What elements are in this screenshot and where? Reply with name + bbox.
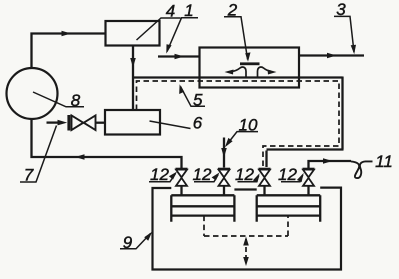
leader 6 bbox=[150, 121, 191, 129]
flow arrow right on line 1 bbox=[175, 54, 185, 60]
dashed drain manifold bbox=[204, 216, 288, 236]
valve 12 #2 bbox=[218, 169, 230, 196]
svg-text:5: 5 bbox=[193, 90, 203, 109]
wire: valve to unit 6 bbox=[96, 122, 106, 124]
svg-text:11: 11 bbox=[375, 152, 393, 171]
valve flange bar bbox=[67, 115, 70, 131]
svg-text:12: 12 bbox=[150, 165, 169, 184]
flow arrow down bbox=[130, 58, 136, 68]
svg-text:9: 9 bbox=[123, 233, 133, 252]
dashed drop arrow line bbox=[245, 239, 247, 263]
bowtie valve (pump inlet) bbox=[72, 116, 84, 131]
leader 12 #3 bbox=[238, 176, 259, 182]
flow arrow down on wire 10 bbox=[221, 148, 227, 158]
svg-text:4: 4 bbox=[166, 2, 175, 21]
regulator left air curve bbox=[233, 67, 247, 77]
wire: pump top to unit 4 bbox=[32, 34, 106, 69]
hose pigtail 11 bbox=[351, 161, 373, 178]
leader 2 bbox=[224, 17, 248, 60]
leader 7 bbox=[20, 126, 57, 183]
leader 3 bbox=[334, 16, 354, 52]
valve 12 #1 bbox=[176, 169, 188, 196]
svg-text:6: 6 bbox=[193, 113, 203, 132]
svg-text:10: 10 bbox=[239, 115, 258, 134]
unit U4 box bbox=[106, 21, 160, 46]
svg-text:12: 12 bbox=[193, 165, 212, 184]
wire 7: pump bottom suction line bbox=[32, 119, 182, 169]
wire 10: wash inlet to valve 2 bbox=[223, 138, 225, 168]
leader 12 #1 bbox=[149, 174, 176, 182]
flow arrow left on wire 7 bbox=[75, 154, 85, 160]
wire: unit 4 down to main line bbox=[132, 46, 134, 78]
svg-text:3: 3 bbox=[336, 0, 346, 19]
leader lines bbox=[20, 16, 356, 248]
wire: inlet line 1 into unit 2 bbox=[158, 55, 199, 57]
valve 12 #4 bbox=[303, 169, 315, 196]
leader 9 bbox=[120, 234, 151, 249]
wire: outlet line 3 bbox=[299, 54, 364, 56]
leader 10 bbox=[227, 132, 259, 145]
regulator cap bar bbox=[240, 62, 260, 65]
svg-text:2: 2 bbox=[227, 0, 238, 19]
svg-text:8: 8 bbox=[71, 91, 81, 110]
milking unit tank right bbox=[257, 195, 321, 222]
wire: valve 4 up and right to hose 11 bbox=[309, 161, 352, 168]
stall frame box 9 bbox=[153, 188, 342, 270]
flow arrow right on line 3 bbox=[327, 53, 337, 59]
leader 4 bbox=[137, 18, 181, 40]
wire: solid drop to unit 6 bbox=[132, 78, 134, 111]
pump circle 8 bbox=[7, 68, 58, 119]
regulator U2 box bbox=[200, 48, 300, 88]
leader 12 #2 bbox=[194, 175, 218, 182]
leader 12 #4 bbox=[281, 175, 303, 182]
svg-text:12: 12 bbox=[278, 165, 297, 184]
milking unit tank left bbox=[171, 195, 234, 222]
main solid vacuum pipe (right loop) bbox=[133, 77, 344, 168]
dashed pulsation line bbox=[137, 81, 340, 167]
leader 1 bbox=[167, 18, 198, 52]
air inlet arrow at valve bbox=[47, 121, 60, 123]
svg-text:7: 7 bbox=[24, 165, 34, 184]
leader 5 bbox=[181, 87, 206, 107]
regulator right air curve bbox=[258, 67, 272, 77]
svg-text:1: 1 bbox=[184, 1, 193, 20]
unit U6 box bbox=[105, 110, 160, 135]
valve 12 #3 bbox=[259, 169, 271, 196]
leader 8 bbox=[33, 92, 84, 107]
svg-text:12: 12 bbox=[235, 165, 254, 184]
flow arrow right on top wire bbox=[62, 31, 72, 37]
